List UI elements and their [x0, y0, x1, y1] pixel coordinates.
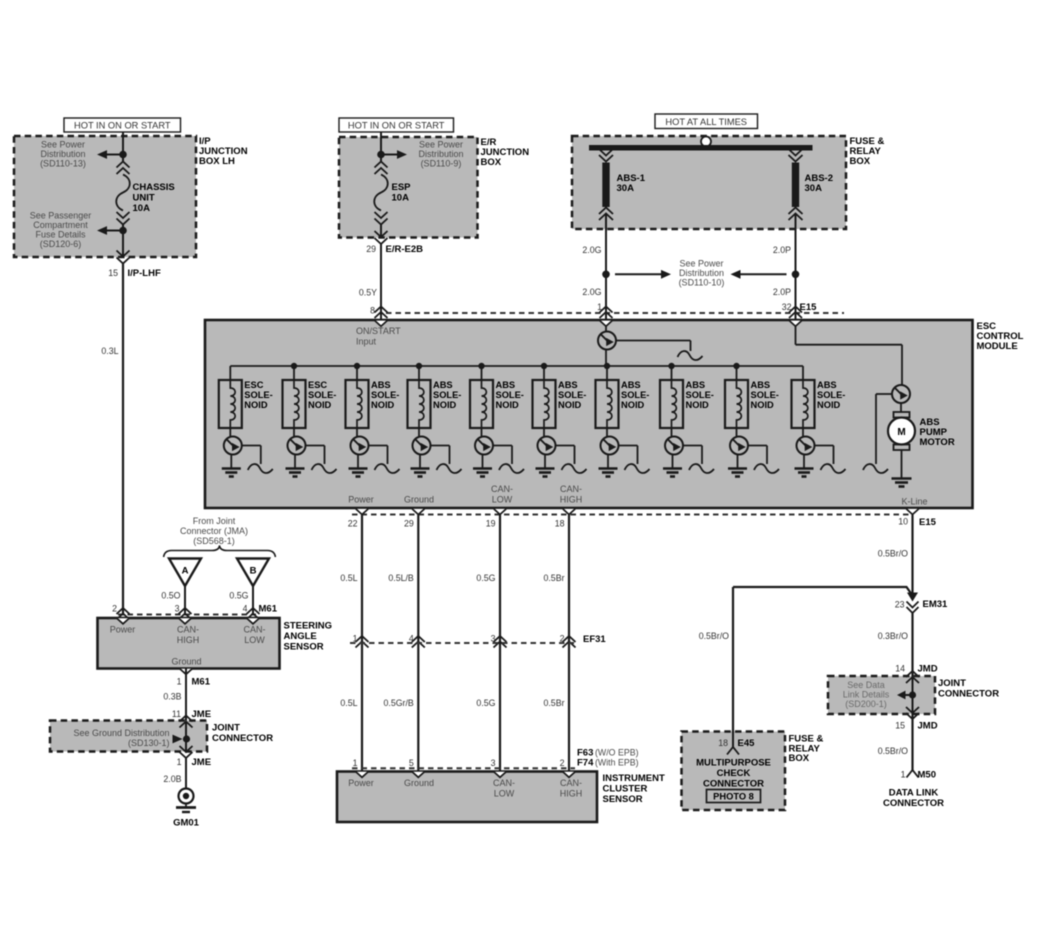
svg-text:SOLE-: SOLE- [433, 390, 461, 400]
ground (module internal, S3) [349, 454, 368, 476]
svg-text:Distribution: Distribution [679, 268, 724, 278]
joint connector triangle A [169, 559, 201, 587]
pin 1, connector JME (lower) [177, 757, 211, 768]
svg-text:CONNECTOR: CONNECTOR [938, 689, 999, 700]
solenoid valve S6 (ABS SOLENOID) [533, 366, 556, 428]
svg-text:B: B [250, 566, 257, 577]
note: See Power Distribution (SD110-10) [679, 259, 725, 288]
label: E/R JUNCTION BOX [481, 137, 530, 168]
wire label 0.5G [229, 591, 248, 601]
svg-text:I/P-LHF: I/P-LHF [128, 268, 161, 279]
pin 14, connector JMD [895, 664, 937, 675]
solenoid valve S9 (ABS SOLENOID) [725, 366, 748, 428]
pin 10, connector E15 (bottom) [898, 517, 936, 529]
fuse ABS-1 30A [599, 149, 613, 220]
sensor entry V pin 2 [117, 618, 129, 624]
svg-text:NOID: NOID [496, 400, 520, 410]
connector row M61 (dashed) [118, 614, 256, 616]
module exit V pin 18 [563, 509, 575, 515]
pin 1, connector M50 [901, 770, 936, 781]
cluster port labels [348, 778, 582, 799]
svg-text:2.0G: 2.0G [582, 245, 601, 255]
node: junction dot to power distribution (SD110-9) [377, 150, 407, 159]
pin 1 (cluster) [353, 758, 358, 768]
svg-text:See Power: See Power [679, 259, 723, 269]
power label: HOT IN ON OR START (middle) [339, 118, 454, 132]
damper element beside Q9 [683, 446, 714, 474]
svg-text:M61: M61 [192, 677, 211, 688]
wire label 0.5L/B (upper) [388, 573, 414, 583]
svg-text:EM31: EM31 [923, 599, 949, 610]
ground (module internal, S8) [663, 454, 682, 476]
svg-text:HOT IN ON OR START: HOT IN ON OR START [348, 121, 445, 131]
svg-text:14: 14 [895, 664, 905, 674]
svg-text:CAN-: CAN- [177, 625, 199, 635]
label: CHASSIS UNIT 10A [133, 182, 175, 214]
svg-text:29: 29 [366, 244, 376, 254]
ground (module internal, S2) [286, 454, 305, 476]
svg-text:10: 10 [898, 517, 908, 527]
module entry V pin 1 [600, 321, 612, 327]
pins 2 / 3 / 4, connector M61 [112, 604, 278, 615]
label: I/P JUNCTION BOX LH [199, 136, 248, 167]
node: bus junction dot 6 [541, 363, 547, 369]
damper element beside Q1 [616, 341, 703, 361]
svg-text:Ground: Ground [404, 778, 434, 788]
svg-text:CONNECTOR: CONNECTOR [883, 798, 944, 809]
svg-text:BOX: BOX [481, 157, 502, 168]
ground (module internal, S4) [411, 454, 430, 476]
svg-text:From Joint: From Joint [193, 516, 236, 526]
svg-text:See Data: See Data [847, 680, 885, 690]
joint connector triangle B [237, 559, 269, 587]
svg-text:CHECK: CHECK [717, 768, 751, 779]
svg-text:ESC: ESC [244, 380, 263, 390]
svg-text:JMD: JMD [918, 721, 938, 732]
svg-text:ANGLE: ANGLE [284, 631, 317, 642]
svg-text:NOID: NOID [817, 400, 841, 410]
transistor Q5 (solenoid driver) [413, 428, 431, 455]
svg-text:3: 3 [491, 758, 496, 768]
transistor Q1 (power driver at pin 1) [598, 326, 616, 366]
damper element beside Q3 [306, 446, 337, 474]
solenoid valve S5 (ABS SOLENOID) [470, 366, 493, 428]
fuse ABS-2 30A [789, 149, 803, 220]
wire 0.5O from triangle A (CAN-HIGH) [184, 586, 186, 615]
svg-text:SOLE-: SOLE- [817, 390, 845, 400]
pin 8 (ON/START input) [370, 306, 375, 316]
label: ABS SOLENOID S4 [433, 380, 461, 410]
motor M (ABS pump motor) [888, 403, 915, 479]
wire 0.5L from module to instrument cluster [361, 515, 363, 772]
label: ESC SOLENOID S2 [308, 380, 336, 410]
solenoid valve S3 (ABS SOLENOID) [346, 366, 369, 428]
note: See Data Link Details (SD200-1) [843, 680, 890, 709]
svg-text:(SD110-10): (SD110-10) [679, 278, 725, 288]
sensor entry V pin 4 [247, 618, 259, 624]
node: junction dot to power distribution (SD110-13) [97, 150, 127, 159]
fuse & relay box (dashed) [572, 136, 846, 229]
connector chevrons EF31 pin 3 [494, 636, 507, 648]
I/P junction box LH (dashed fuse box) [14, 136, 196, 257]
node: junction dot to passenger compartment fuse details [97, 226, 127, 235]
node: bus junction dot 2 [291, 363, 297, 369]
svg-text:19: 19 [486, 519, 496, 529]
sensor entry V pin 3 [179, 618, 191, 624]
label: MULTIPURPOSE CHECK CONNECTOR [696, 758, 771, 790]
label: JOINT CONNECTOR (left) [212, 723, 273, 745]
pin 5 (cluster) [409, 758, 414, 768]
cluster entry V [356, 772, 368, 778]
instrument cluster sensor box [337, 772, 597, 823]
node: bus junction dot at Q1 column [604, 363, 610, 369]
pin 1 (EF31) [353, 634, 358, 644]
wire label 0.5Br/O (branch) [699, 631, 729, 641]
pin 3 (cluster) [491, 758, 496, 768]
wire label 0.5Br/O (K-line upper) [878, 549, 908, 559]
ground (module internal, S1) [222, 454, 241, 476]
connector chevrons pin 8 [375, 307, 388, 319]
cluster entry V [494, 772, 506, 778]
damper element beside Q4 [369, 446, 400, 474]
svg-text:0.5Br/O: 0.5Br/O [878, 549, 908, 559]
wire 2.0G from ABS-1 fuse to ESC module pin 1 [605, 214, 607, 321]
damper element beside Q5 [431, 446, 462, 474]
svg-text:0.5G: 0.5G [476, 573, 495, 583]
connector chevrons M61 pin 3 [179, 608, 192, 620]
wire 2.0B to ground GM01 [185, 758, 187, 789]
transistor Q9 (solenoid driver) [665, 428, 683, 455]
wire label 2.0B [163, 774, 181, 784]
damper element beside Q2 [242, 446, 273, 474]
svg-text:(SD110-13): (SD110-13) [40, 159, 86, 169]
note: From Joint Connector (JMA) (SD568-1) [180, 516, 248, 546]
label: EF31 [583, 634, 606, 645]
wire 0.5Br from module to instrument cluster [568, 515, 570, 772]
pin 18, connector E45 [718, 738, 755, 749]
module exit V pin 29 [412, 509, 424, 515]
svg-text:Distribution: Distribution [418, 149, 463, 159]
svg-text:LOW: LOW [492, 495, 513, 505]
svg-text:SOLE-: SOLE- [371, 390, 399, 400]
wire 0.5G from module to instrument cluster [499, 515, 501, 772]
pin 23, connector EM31 [895, 599, 948, 610]
svg-text:22: 22 [348, 519, 358, 529]
pin 11, connector JME [172, 709, 211, 720]
damper element beside Q11 [815, 446, 846, 474]
sensor ground exit V [180, 669, 192, 675]
node: bus junction dot 3 [354, 363, 360, 369]
svg-text:2.0P: 2.0P [773, 287, 791, 297]
pin 4 (EF31) [409, 634, 414, 644]
wire label 0.3Br/O [878, 631, 908, 641]
svg-text:HIGH: HIGH [177, 635, 200, 645]
connector row E15 (dashed, module bottom) [352, 514, 913, 516]
svg-text:NOID: NOID [686, 400, 710, 410]
svg-text:ESP: ESP [392, 182, 412, 193]
svg-text:0.5G: 0.5G [476, 698, 495, 708]
pin 2 (EF31) [560, 634, 565, 644]
solenoid supply bus [230, 365, 803, 367]
pin 15 I/P-LHF [108, 268, 161, 279]
damper element beside Q10 [748, 446, 779, 474]
pin 15, connector JMD (lower) [895, 721, 937, 732]
svg-text:M61: M61 [259, 604, 278, 615]
svg-text:ABS: ABS [751, 380, 771, 390]
svg-text:E15: E15 [919, 517, 937, 528]
steering angle sensor box [98, 618, 280, 669]
transistor Q10 (solenoid driver) [730, 428, 748, 455]
svg-text:K-Line: K-Line [901, 497, 927, 507]
svg-text:8: 8 [370, 306, 375, 316]
label: ON/START Input [356, 326, 401, 347]
wire label 0.5G (upper) [476, 573, 495, 583]
svg-text:JME: JME [192, 757, 212, 768]
svg-text:NOID: NOID [558, 400, 582, 410]
note: See Power Distribution (SD110-9) [418, 140, 463, 169]
label: ESC SOLENOID S1 [244, 380, 272, 410]
svg-text:E/R-E2B: E/R-E2B [386, 244, 424, 255]
fuse CHASSIS UNIT 10A [116, 162, 130, 225]
svg-text:NOID: NOID [621, 400, 645, 410]
wire 0.5Y from E/R-E2B to ESC module pin 8 [380, 244, 382, 320]
svg-text:Ground: Ground [404, 495, 434, 505]
svg-text:JOINT: JOINT [938, 678, 966, 689]
ESC control module box [205, 320, 973, 508]
svg-text:UNIT: UNIT [133, 193, 155, 204]
svg-text:11: 11 [172, 709, 181, 719]
svg-text:LOW: LOW [244, 635, 265, 645]
node: bus junction dot 4 [416, 363, 422, 369]
svg-text:HOT AT ALL TIMES: HOT AT ALL TIMES [665, 117, 747, 127]
svg-text:SOLE-: SOLE- [496, 390, 524, 400]
wire labels 2.0G / 2.0P (lower) [582, 287, 791, 297]
svg-text:DATA LINK: DATA LINK [889, 788, 939, 799]
svg-text:MOTOR: MOTOR [920, 437, 955, 448]
svg-text:BOX LH: BOX LH [199, 156, 235, 167]
svg-text:ABS: ABS [496, 380, 516, 390]
svg-text:JOINT: JOINT [212, 723, 240, 734]
label: ABS SOLENOID S8 [686, 380, 714, 410]
svg-text:30A: 30A [805, 183, 823, 194]
svg-text:29: 29 [404, 519, 414, 529]
svg-text:LOW: LOW [494, 789, 515, 799]
svg-text:ON/START: ON/START [356, 326, 401, 336]
label: ABS-2 30A [805, 173, 834, 194]
svg-text:HIGH: HIGH [560, 495, 583, 505]
svg-text:(SD200-1): (SD200-1) [845, 699, 887, 709]
label: ABS SOLENOID S10 [817, 380, 845, 410]
connector chevrons EF31 pin 2 [563, 636, 576, 648]
svg-text:A: A [182, 566, 189, 577]
brace over joint connector triangles [164, 546, 276, 558]
svg-text:5: 5 [409, 758, 414, 768]
wire through JMD joint connector [912, 676, 914, 714]
svg-text:23: 23 [895, 600, 905, 610]
svg-text:Link Details: Link Details [843, 690, 890, 700]
svg-text:1: 1 [177, 677, 182, 687]
svg-text:Ground: Ground [171, 657, 201, 667]
wire 0.3B sensor ground [185, 669, 187, 721]
svg-text:18: 18 [555, 519, 565, 529]
svg-text:SENSOR: SENSOR [284, 642, 324, 653]
wire branch to multipurpose check connector [733, 587, 913, 747]
connector chevrons JMD top [906, 671, 919, 683]
svg-text:15: 15 [895, 721, 905, 731]
svg-text:ABS: ABS [371, 380, 391, 390]
svg-text:CAN-: CAN- [491, 484, 513, 494]
label: FUSE & RELAY BOX (top right) [850, 136, 885, 167]
solenoid valve S7 (ABS SOLENOID) [596, 366, 619, 428]
ground (ABS pump motor) [892, 479, 912, 487]
transistor Q2 (solenoid driver) [224, 428, 242, 455]
pin 3 (EF31) [491, 634, 496, 644]
svg-text:0.5Br/O: 0.5Br/O [878, 746, 908, 756]
svg-text:NOID: NOID [433, 400, 457, 410]
wire through JME joint connector [185, 722, 187, 753]
svg-text:NOID: NOID [751, 400, 775, 410]
label: INSTRUMENT CLUSTER SENSOR [603, 773, 665, 805]
svg-text:0.5L: 0.5L [340, 698, 357, 708]
ground (module internal, S7) [599, 454, 618, 476]
note: See Passenger Compartment Fuse Details (SD120-6) [30, 211, 92, 250]
label: ESP 10A [392, 182, 412, 204]
damper element beside Q11 [863, 394, 892, 473]
label: ABS PUMP MOTOR [920, 417, 955, 448]
wire label 0.5L (upper) [340, 573, 357, 583]
wire labels 2.0G / 2.0P (upper) [582, 245, 791, 255]
svg-text:0.5Br: 0.5Br [543, 573, 564, 583]
wire: hot feed through E/R junction box [380, 132, 382, 238]
svg-text:MULTIPURPOSE: MULTIPURPOSE [696, 758, 771, 769]
svg-text:ABS: ABS [558, 380, 578, 390]
svg-text:(SD130-1): (SD130-1) [128, 738, 170, 748]
connector chevrons JME bottom [180, 746, 193, 758]
label: PHOTO 8 [707, 790, 761, 803]
solenoid valve S4 (ABS SOLENOID) [408, 366, 431, 428]
in-line connector EM31 (pin 23) [907, 593, 919, 614]
joint connector JMD box (dashed) [828, 676, 935, 714]
wire 0.3Br/O from EM31 to JMD [911, 613, 913, 770]
wire: hot feed through I/P junction box [122, 132, 124, 257]
connector chevrons pin 1 [600, 307, 613, 319]
svg-text:Compartment: Compartment [33, 220, 88, 230]
svg-text:CAN-: CAN- [560, 778, 582, 788]
svg-text:BOX: BOX [789, 753, 810, 764]
svg-text:15: 15 [108, 268, 118, 278]
note: See Power Distribution (SD110-13) [40, 140, 86, 169]
module entry V pin 32 [789, 321, 801, 327]
wire label 0.5G (lower) [476, 698, 495, 708]
pin 1, connector M61 (ground) [177, 677, 211, 688]
svg-text:1: 1 [177, 757, 182, 767]
svg-text:STEERING: STEERING [284, 621, 333, 632]
svg-text:SOLE-: SOLE- [621, 390, 649, 400]
svg-text:(SD110-9): (SD110-9) [421, 159, 462, 169]
svg-text:E45: E45 [738, 738, 756, 749]
wire label 0.5O [161, 591, 180, 601]
ground (module internal, S5) [473, 454, 492, 476]
pin 2 (cluster) [560, 758, 565, 768]
connector chevrons EF31 pin 1 [356, 636, 369, 648]
cluster entry V [563, 772, 575, 778]
label: STEERING ANGLE SENSOR [284, 621, 333, 653]
svg-text:SOLE-: SOLE- [244, 390, 272, 400]
svg-text:JMD: JMD [918, 664, 938, 675]
damper element beside Q6 [493, 446, 524, 474]
wire: pin 32 feed to ABS pump motor [796, 326, 903, 386]
wire label 0.3B [163, 692, 181, 702]
svg-text:See Ground Distribution: See Ground Distribution [73, 728, 169, 738]
joint connector JME box (dashed) [50, 721, 207, 752]
pin 19 [486, 519, 496, 529]
svg-text:(SD120-6): (SD120-6) [40, 239, 82, 249]
svg-text:10A: 10A [392, 193, 410, 204]
note: See Ground Distribution (SD130-1) [73, 728, 169, 748]
power label: HOT IN ON OR START (left) [64, 118, 181, 132]
svg-text:Power: Power [110, 625, 136, 635]
bus bar with bolt [589, 137, 813, 151]
svg-text:F74: F74 [577, 758, 594, 769]
module exit V pin 22 [356, 509, 368, 515]
transistor Q11 (solenoid driver) [797, 428, 815, 455]
terminal V at multipurpose check connector [727, 747, 739, 755]
svg-text:0.5Br: 0.5Br [543, 698, 564, 708]
E/R junction box (dashed fuse box) [339, 137, 478, 238]
pin 29 [404, 519, 414, 529]
svg-text:EF31: EF31 [583, 634, 606, 645]
solenoid valve S10 (ABS SOLENOID) [792, 366, 815, 428]
connector chevrons JMD bottom [906, 707, 919, 719]
damper element beside Q8 [619, 446, 650, 474]
connector row E15 (dashed, module top) [386, 312, 844, 314]
svg-text:Connector (JMA): Connector (JMA) [180, 526, 248, 536]
svg-text:INSTRUMENT: INSTRUMENT [603, 773, 665, 784]
solenoid valve S1 (ESC SOLENOID) [219, 366, 242, 428]
connector chevrons M61 pin 4 [247, 608, 260, 620]
svg-text:Input: Input [356, 337, 377, 347]
wire label 0.5Y [359, 288, 377, 298]
node: junction dot in JME joint connector [173, 735, 191, 744]
wire label 0.5Br (lower) [543, 698, 564, 708]
svg-text:HIGH: HIGH [560, 789, 583, 799]
svg-text:M50: M50 [918, 770, 936, 781]
connector exit chevrons at E/R box edge [375, 231, 388, 244]
svg-text:CAN-: CAN- [560, 484, 582, 494]
module entry V pin 8 [375, 321, 387, 327]
svg-text:18: 18 [718, 738, 728, 748]
wire 0.5G from triangle B (CAN-LOW) [252, 586, 254, 615]
wire label 0.5Gr/B (lower) [383, 698, 413, 708]
label: DATA LINK CONNECTOR [883, 788, 944, 810]
label: ABS SOLENOID S3 [371, 380, 399, 410]
label: GM01 [173, 818, 200, 829]
node: bus junction dot 9 [733, 363, 739, 369]
svg-text:E15: E15 [800, 302, 818, 313]
svg-text:CHASSIS: CHASSIS [133, 182, 175, 193]
svg-text:0.5Y: 0.5Y [359, 288, 377, 298]
label: ESC CONTROL MODULE [977, 321, 1024, 352]
svg-text:CONNECTOR: CONNECTOR [703, 779, 764, 790]
svg-text:SOLE-: SOLE- [751, 390, 779, 400]
pin 29 E/R-E2B [366, 244, 423, 255]
wire label 0.5L (lower) [340, 698, 357, 708]
svg-text:ABS: ABS [621, 380, 641, 390]
svg-text:(W/O EPB): (W/O EPB) [595, 748, 639, 758]
wire 0.5L/B from module to instrument cluster [417, 515, 419, 772]
damper element beside Q7 [556, 446, 587, 474]
svg-text:SOLE-: SOLE- [308, 390, 336, 400]
